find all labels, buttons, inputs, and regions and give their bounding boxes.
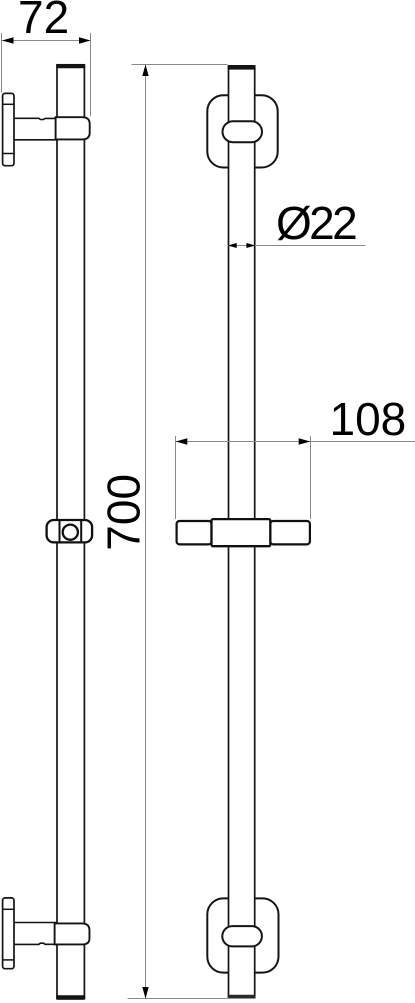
svg-text:108: 108	[330, 393, 407, 445]
svg-text:700: 700	[97, 474, 149, 551]
svg-text:72: 72	[18, 0, 69, 43]
svg-text:Ø22: Ø22	[276, 197, 356, 249]
